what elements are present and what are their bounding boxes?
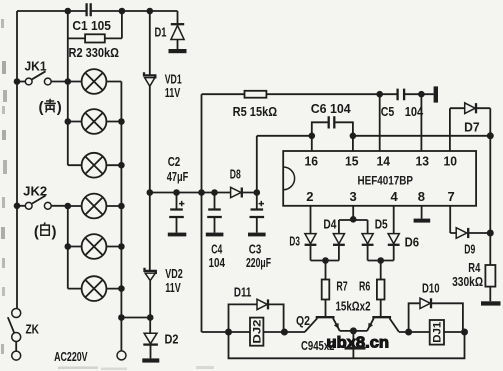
svg-text:D7: D7 bbox=[464, 119, 480, 134]
svg-text:D4: D4 bbox=[323, 216, 337, 231]
svg-text:DJ1: DJ1 bbox=[432, 322, 444, 343]
svg-text:220μF: 220μF bbox=[246, 255, 271, 270]
svg-text:AC220V: AC220V bbox=[54, 349, 88, 364]
svg-text:): ) bbox=[52, 224, 57, 241]
svg-text:15kΩx2: 15kΩx2 bbox=[336, 298, 371, 313]
svg-text:HEF4017BP: HEF4017BP bbox=[358, 173, 414, 187]
svg-text:C1 105: C1 105 bbox=[72, 18, 111, 33]
svg-text:DJ2: DJ2 bbox=[251, 320, 263, 344]
svg-text:D10: D10 bbox=[422, 280, 440, 295]
svg-text:D8: D8 bbox=[230, 166, 241, 181]
svg-text:8: 8 bbox=[418, 189, 425, 204]
svg-text:Q2: Q2 bbox=[296, 313, 310, 328]
svg-text:D3: D3 bbox=[289, 233, 300, 248]
svg-text:R4: R4 bbox=[468, 260, 481, 275]
svg-text:16: 16 bbox=[305, 153, 319, 168]
svg-text:VD2: VD2 bbox=[165, 266, 183, 281]
svg-text:R7: R7 bbox=[336, 278, 347, 293]
svg-text:D1: D1 bbox=[155, 25, 167, 40]
svg-text:D2: D2 bbox=[165, 331, 179, 346]
svg-text:D9: D9 bbox=[464, 241, 475, 256]
svg-text:D11: D11 bbox=[234, 285, 252, 300]
svg-text:C6 104: C6 104 bbox=[311, 101, 352, 116]
svg-text:R5 15kΩ: R5 15kΩ bbox=[233, 104, 278, 119]
svg-text:): ) bbox=[57, 99, 62, 116]
svg-text:R6: R6 bbox=[359, 278, 370, 293]
svg-text:11V: 11V bbox=[165, 280, 181, 295]
svg-text:104: 104 bbox=[209, 255, 226, 270]
svg-text:15: 15 bbox=[345, 153, 359, 168]
svg-text:2: 2 bbox=[306, 189, 313, 204]
svg-text:13: 13 bbox=[416, 153, 430, 168]
svg-text:10: 10 bbox=[444, 153, 458, 168]
svg-text:4: 4 bbox=[391, 189, 399, 204]
svg-text:330kΩ: 330kΩ bbox=[452, 274, 483, 289]
svg-text:14: 14 bbox=[377, 153, 391, 168]
svg-text:C2: C2 bbox=[168, 154, 181, 169]
svg-text:(: ( bbox=[39, 99, 44, 116]
svg-text:3: 3 bbox=[350, 189, 357, 204]
svg-text:JK1: JK1 bbox=[25, 59, 47, 74]
svg-text:7: 7 bbox=[448, 189, 455, 204]
svg-text:D6: D6 bbox=[405, 234, 420, 249]
svg-text:11V: 11V bbox=[165, 85, 181, 100]
svg-text:104: 104 bbox=[405, 104, 424, 119]
svg-text:47μF: 47μF bbox=[167, 169, 189, 184]
svg-text:D5: D5 bbox=[375, 216, 388, 231]
svg-text:R2 330kΩ: R2 330kΩ bbox=[69, 45, 120, 60]
svg-text:C5: C5 bbox=[381, 104, 395, 119]
svg-text:ZK: ZK bbox=[26, 322, 40, 337]
svg-text:(: ( bbox=[34, 224, 39, 241]
svg-text:JK2: JK2 bbox=[23, 184, 47, 199]
